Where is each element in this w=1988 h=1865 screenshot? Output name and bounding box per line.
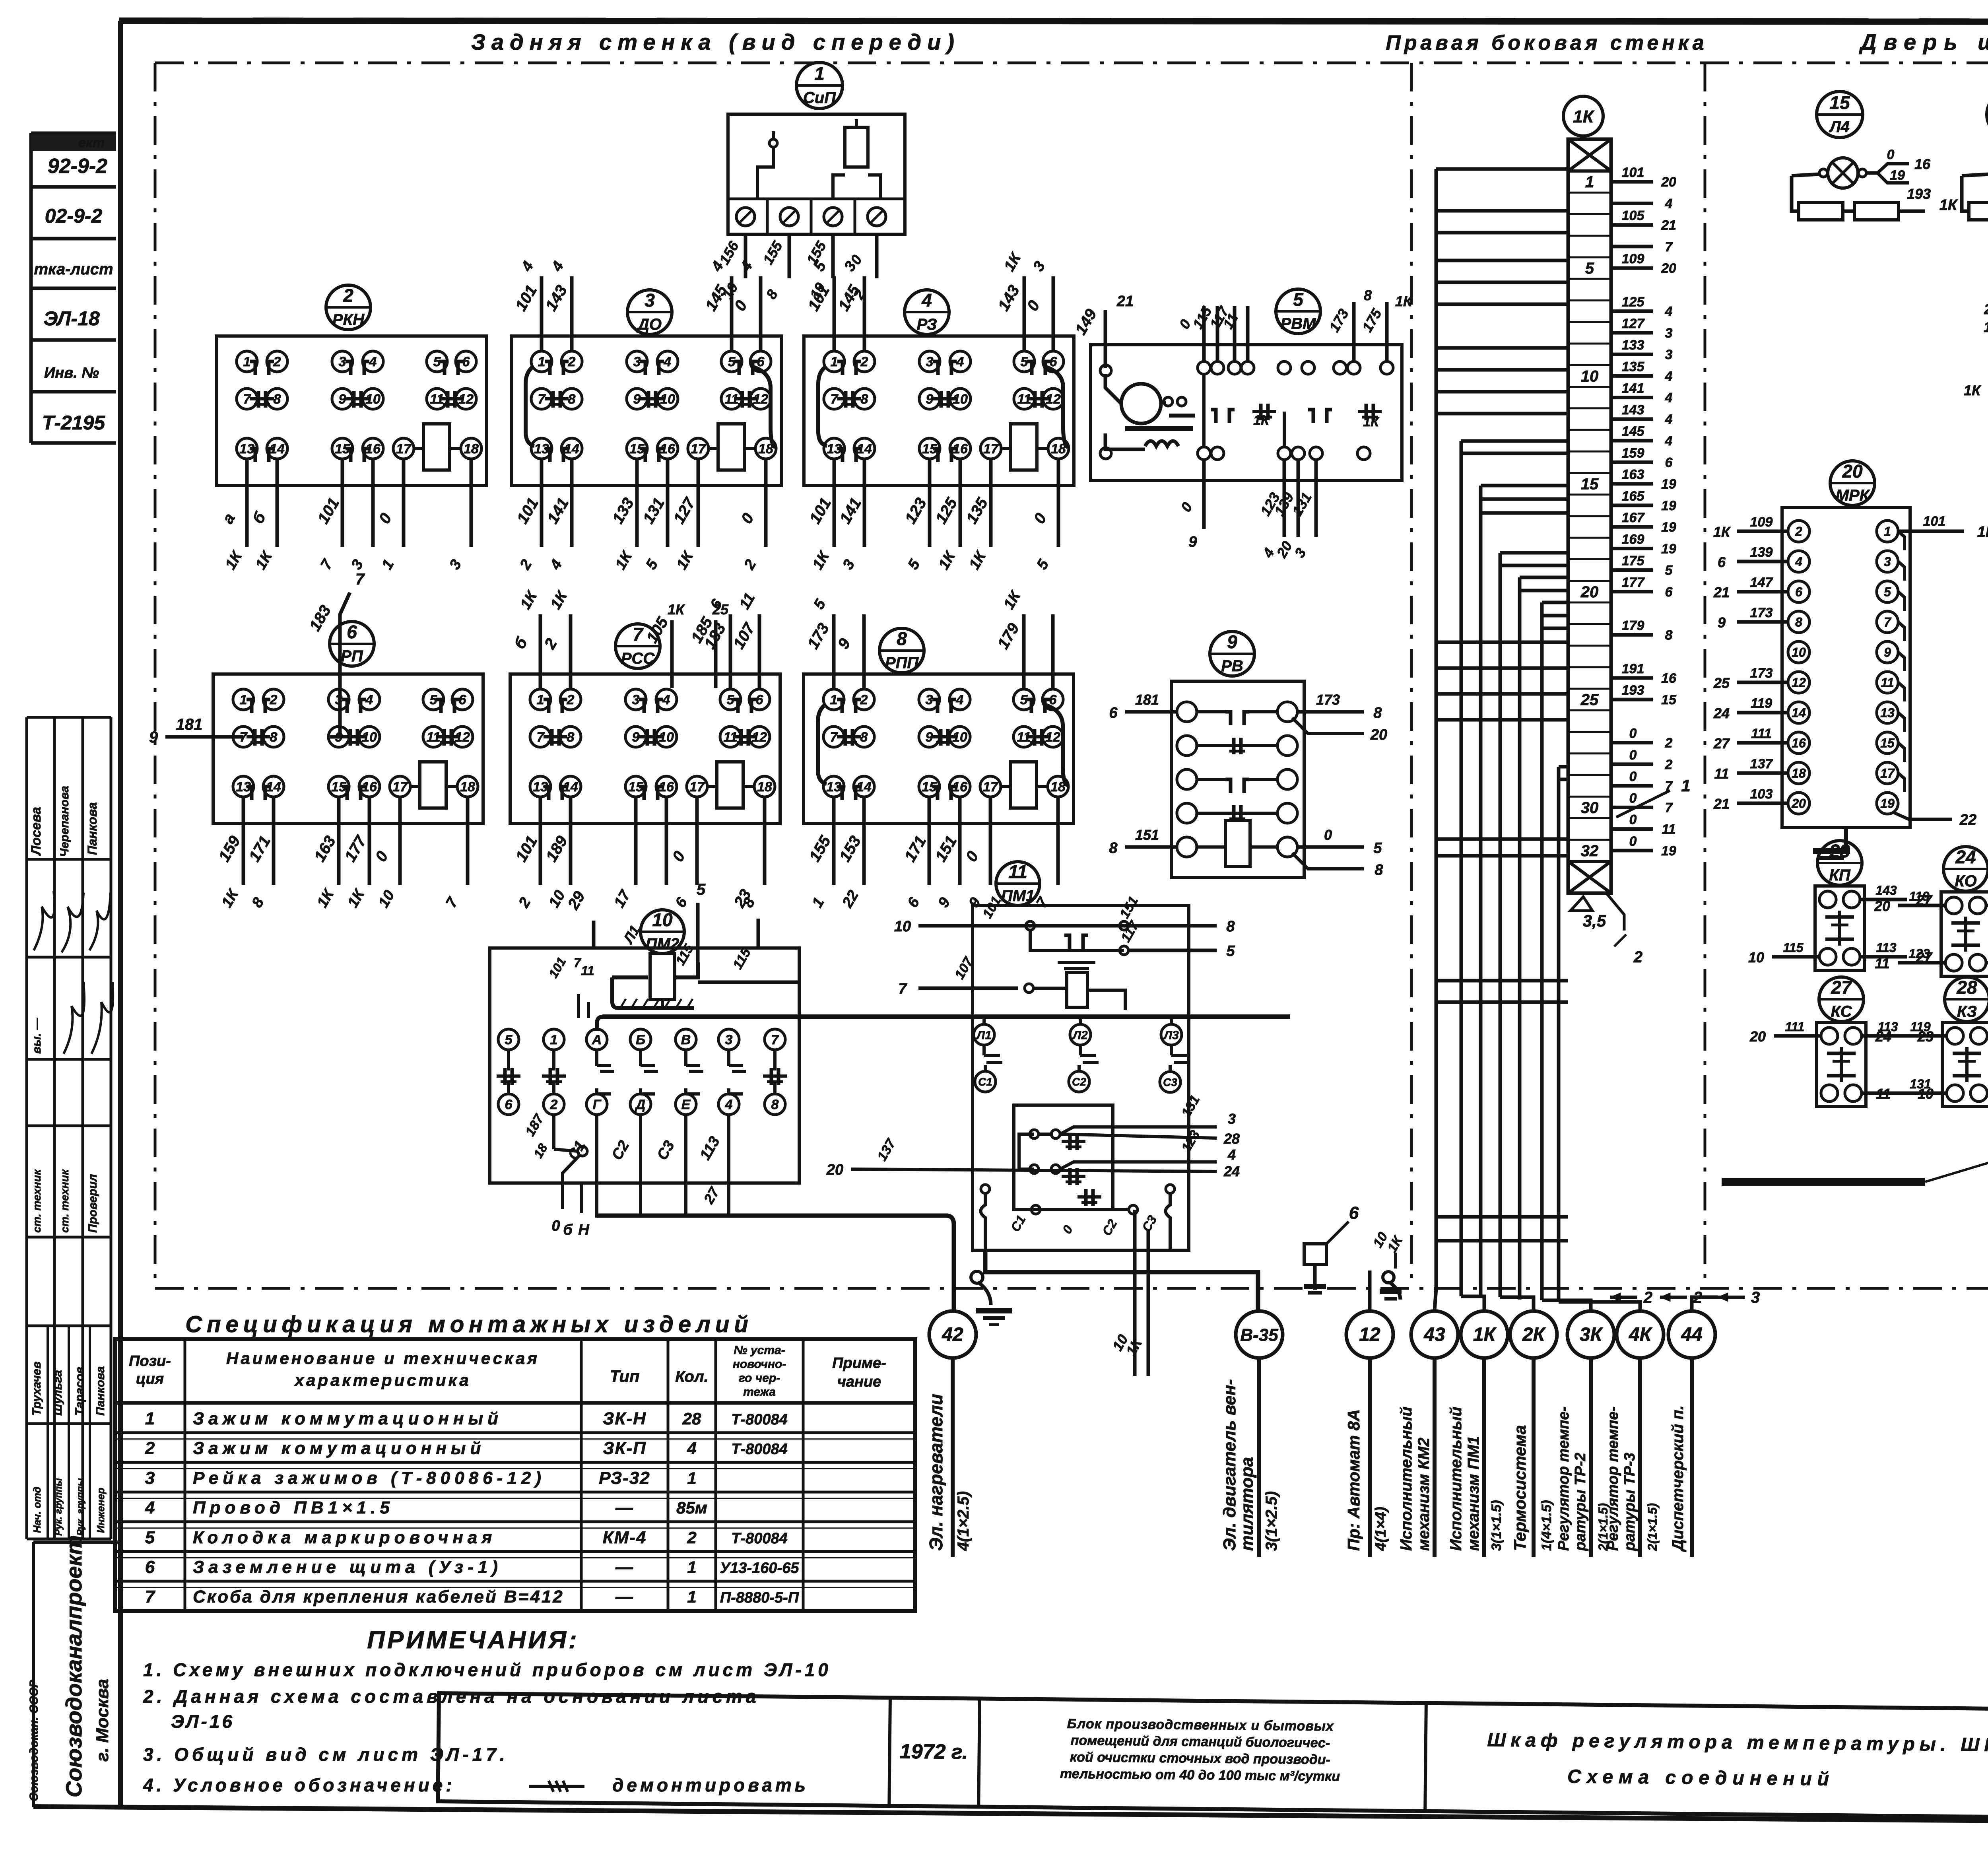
svg-text:3: 3: [1228, 1111, 1236, 1127]
svg-text:РП: РП: [341, 647, 363, 665]
svg-text:Пози-: Пози-: [129, 1353, 171, 1370]
svg-text:тилятора: тилятора: [1237, 1457, 1257, 1551]
svg-text:демонтировать: демонтировать: [612, 1775, 809, 1795]
svg-text:1: 1: [240, 692, 247, 707]
svg-text:Приме-: Приме-: [832, 1355, 886, 1372]
svg-text:0: 0: [1629, 812, 1637, 828]
svg-text:4(1×2.5): 4(1×2.5): [955, 1491, 972, 1551]
svg-text:Инженер: Инженер: [95, 1488, 107, 1533]
svg-text:ратуры ТР-3: ратуры ТР-3: [1621, 1453, 1638, 1551]
svg-text:Кол.: Кол.: [675, 1368, 709, 1385]
svg-text:177: 177: [1622, 575, 1645, 590]
svg-text:2: 2: [1665, 757, 1673, 772]
svg-text:15: 15: [1880, 736, 1895, 750]
svg-text:Термосистема: Термосистема: [1510, 1425, 1529, 1551]
svg-text:20: 20: [1791, 797, 1806, 811]
svg-text:РВМ: РВМ: [1281, 315, 1317, 332]
svg-text:111: 111: [1785, 1020, 1805, 1034]
svg-text:Т-80084: Т-80084: [731, 1441, 788, 1458]
svg-text:КЗ: КЗ: [1957, 1003, 1977, 1020]
svg-text:3: 3: [725, 1032, 733, 1047]
svg-text:Тарасов: Тарасов: [73, 1367, 86, 1416]
svg-text:7: 7: [145, 1587, 156, 1607]
svg-text:Эл. двигатель вен-: Эл. двигатель вен-: [1220, 1379, 1239, 1551]
svg-text:5: 5: [697, 881, 706, 898]
svg-text:179: 179: [1622, 618, 1644, 633]
svg-text:19: 19: [1880, 797, 1895, 811]
svg-text:8: 8: [270, 730, 278, 745]
svg-text:11: 11: [1876, 1086, 1891, 1102]
svg-text:Л3: Л3: [1163, 1029, 1179, 1042]
svg-text:4: 4: [662, 692, 670, 707]
svg-text:44: 44: [1681, 1324, 1702, 1345]
svg-text:8: 8: [1373, 705, 1382, 721]
svg-text:3: 3: [633, 354, 641, 369]
svg-text:165: 165: [1622, 489, 1645, 504]
svg-text:Панкова: Панкова: [85, 802, 99, 855]
svg-text:Регулятор темпе-: Регулятор темпе-: [1605, 1407, 1621, 1551]
svg-text:Диспетчерский п.: Диспетчерский п.: [1669, 1405, 1687, 1552]
svg-text:11: 11: [1714, 765, 1729, 782]
svg-text:РЗ-32: РЗ-32: [599, 1468, 650, 1488]
svg-text:2: 2: [687, 1528, 696, 1547]
svg-text:6: 6: [462, 354, 470, 369]
svg-text:Наименование и техническая: Наименование и техническая: [226, 1349, 540, 1368]
svg-text:92-9-2: 92-9-2: [48, 155, 107, 178]
svg-text:Исполнительный: Исполнительный: [1447, 1407, 1465, 1551]
svg-text:21: 21: [1713, 584, 1730, 600]
svg-text:У13-160-65: У13-160-65: [720, 1560, 800, 1577]
svg-text:7: 7: [1884, 615, 1892, 629]
svg-text:20: 20: [1370, 727, 1387, 743]
svg-text:Трухачев: Трухачев: [30, 1362, 43, 1416]
svg-text:24: 24: [1223, 1163, 1240, 1179]
svg-text:0: 0: [1629, 726, 1637, 741]
svg-text:Б: Б: [636, 1032, 645, 1047]
svg-text:23: 23: [1829, 841, 1850, 861]
svg-text:8: 8: [1364, 287, 1372, 303]
svg-text:12: 12: [1792, 676, 1806, 690]
svg-text:9: 9: [633, 392, 641, 407]
svg-text:2: 2: [1795, 525, 1802, 539]
svg-text:Л4: Л4: [1829, 118, 1850, 136]
svg-text:11: 11: [1008, 861, 1027, 882]
svg-text:139: 139: [1750, 545, 1773, 560]
svg-text:6: 6: [1349, 1203, 1359, 1223]
svg-text:123: 123: [1908, 946, 1930, 961]
svg-text:16: 16: [1792, 736, 1806, 750]
svg-text:17: 17: [983, 779, 999, 795]
svg-text:131: 131: [1910, 1077, 1931, 1091]
svg-text:18: 18: [460, 779, 475, 795]
svg-text:Задняя стенка (вид спере: Задняя стенка (вид спереди): [471, 29, 960, 54]
svg-text:3: 3: [339, 354, 346, 369]
svg-text:17: 17: [983, 441, 999, 457]
svg-text:10: 10: [894, 918, 911, 935]
svg-text:КС: КС: [1831, 1003, 1852, 1020]
svg-text:ПМ2: ПМ2: [646, 935, 679, 953]
svg-text:17: 17: [392, 779, 408, 795]
svg-text:2: 2: [270, 692, 278, 707]
svg-text:5: 5: [1293, 289, 1304, 310]
svg-text:КМ-4: КМ-4: [603, 1528, 647, 1547]
svg-text:ДО: ДО: [637, 316, 662, 333]
svg-text:109: 109: [1622, 251, 1644, 266]
svg-text:ЭЛ-18: ЭЛ-18: [43, 307, 100, 330]
svg-text:ст. техник: ст. техник: [31, 1169, 43, 1233]
svg-text:5: 5: [1884, 585, 1891, 599]
svg-text:193: 193: [1622, 683, 1644, 698]
svg-text:Нач. отд: Нач. отд: [31, 1486, 43, 1533]
svg-text:1К: 1К: [668, 601, 685, 618]
svg-text:3: 3: [645, 290, 655, 311]
svg-text:173: 173: [1316, 692, 1340, 708]
svg-text:167: 167: [1622, 510, 1645, 525]
svg-text:1(4×1.5): 1(4×1.5): [1539, 1500, 1554, 1551]
svg-text:4: 4: [369, 354, 377, 369]
svg-text:Т-80084: Т-80084: [731, 1530, 788, 1547]
svg-text:6: 6: [756, 692, 764, 707]
svg-text:4: 4: [1795, 555, 1802, 569]
svg-text:Колодка маркировочная: Колодка маркировочная: [193, 1528, 496, 1547]
svg-text:4: 4: [365, 692, 373, 707]
svg-text:22: 22: [1959, 812, 1976, 828]
svg-text:механизм ПМ1: механизм ПМ1: [1465, 1436, 1482, 1551]
svg-text:1: 1: [830, 692, 838, 707]
svg-text:РПП: РПП: [885, 654, 919, 672]
svg-text:Пр: Автомат 8А: Пр: Автомат 8А: [1344, 1409, 1363, 1551]
svg-text:2: 2: [145, 1439, 155, 1458]
svg-text:30: 30: [1581, 799, 1599, 816]
svg-text:2: 2: [550, 1097, 558, 1112]
svg-text:9: 9: [1188, 534, 1197, 550]
svg-text:4(1×4): 4(1×4): [1373, 1507, 1389, 1551]
svg-text:тежа: тежа: [743, 1385, 776, 1399]
svg-text:8: 8: [567, 730, 575, 745]
svg-text:Рейка зажимов (Т-80086-12): Рейка зажимов (Т-80086-12): [193, 1468, 546, 1488]
svg-text:7: 7: [1665, 779, 1673, 794]
svg-text:0: 0: [551, 1218, 560, 1234]
svg-text:4: 4: [664, 354, 672, 369]
svg-text:101: 101: [1622, 165, 1644, 180]
svg-text:МРК: МРК: [1836, 487, 1870, 504]
svg-text:Е: Е: [681, 1097, 691, 1112]
svg-text:—: —: [615, 1558, 634, 1577]
svg-text:Спецификация монтажных изд: Спецификация монтажных изделий: [185, 1311, 753, 1337]
svg-text:4: 4: [956, 692, 964, 707]
svg-text:32: 32: [1581, 842, 1599, 860]
svg-text:0: 0: [1629, 834, 1637, 849]
svg-text:16: 16: [1914, 156, 1931, 172]
svg-text:119: 119: [1751, 696, 1772, 711]
svg-text:4: 4: [1665, 390, 1673, 406]
svg-text:новочно-: новочно-: [733, 1358, 786, 1371]
svg-text:1К: 1К: [1939, 197, 1958, 214]
svg-text:103: 103: [1750, 787, 1773, 802]
svg-text:6: 6: [505, 1097, 513, 1112]
svg-text:Шульга: Шульга: [51, 1370, 64, 1416]
svg-text:20: 20: [1749, 1028, 1766, 1045]
svg-text:15: 15: [1581, 476, 1599, 493]
svg-text:Зажим коммутационный: Зажим коммутационный: [193, 1409, 503, 1428]
svg-text:Лосева: Лосева: [29, 807, 44, 856]
svg-text:25: 25: [712, 601, 729, 618]
svg-text:Эл. нагреватели: Эл. нагреватели: [926, 1394, 946, 1551]
svg-text:3К: 3К: [1580, 1324, 1604, 1345]
svg-text:135: 135: [1622, 359, 1645, 374]
svg-text:0: 0: [1629, 748, 1637, 763]
svg-text:19: 19: [1661, 520, 1676, 535]
svg-text:0: 0: [1887, 147, 1895, 162]
svg-text:8: 8: [1665, 627, 1673, 643]
svg-text:ЗК-П: ЗК-П: [603, 1439, 646, 1458]
svg-text:Рук. группы: Рук. группы: [53, 1478, 64, 1536]
svg-text:тка-лист: тка-лист: [34, 260, 113, 278]
svg-text:1: 1: [831, 354, 838, 369]
svg-text:119: 119: [1909, 889, 1929, 903]
svg-text:С3: С3: [1163, 1076, 1177, 1088]
svg-text:Черепанова: Черепанова: [58, 786, 71, 857]
svg-text:ЗК-Н: ЗК-Н: [603, 1409, 646, 1428]
svg-text:17: 17: [691, 441, 707, 457]
svg-text:б: б: [563, 1222, 573, 1238]
svg-text:4: 4: [687, 1439, 696, 1458]
svg-text:1К: 1К: [1713, 524, 1731, 540]
svg-text:6: 6: [1718, 554, 1726, 570]
svg-text:5: 5: [1585, 260, 1594, 277]
svg-text:115: 115: [1783, 940, 1804, 955]
svg-text:6: 6: [459, 692, 467, 707]
svg-text:1К: 1К: [1473, 1324, 1497, 1345]
svg-text:141: 141: [1622, 381, 1644, 396]
svg-text:1К: 1К: [1253, 413, 1270, 428]
svg-text:125: 125: [1622, 295, 1645, 310]
svg-text:8: 8: [771, 1097, 779, 1112]
svg-text:Исполнительный: Исполнительный: [1398, 1407, 1415, 1551]
svg-text:6: 6: [145, 1558, 155, 1577]
svg-text:3: 3: [145, 1468, 155, 1488]
svg-text:1. Схему внешних подключений: 1. Схему внешних подключений приборов см…: [143, 1659, 831, 1680]
svg-text:Правая боковая стенка: Правая боковая стенка: [1386, 31, 1707, 54]
svg-text:9: 9: [339, 392, 346, 407]
svg-text:25: 25: [1713, 675, 1730, 691]
svg-text:105: 105: [1622, 208, 1645, 223]
svg-text:КП: КП: [1829, 866, 1851, 884]
svg-text:7: 7: [355, 571, 365, 588]
svg-text:механизм КМ2: механизм КМ2: [1415, 1438, 1433, 1551]
svg-text:27: 27: [1831, 977, 1852, 998]
svg-text:Провод ПВ1×1.5: Провод ПВ1×1.5: [193, 1498, 394, 1517]
svg-text:10: 10: [1792, 645, 1806, 660]
svg-text:4: 4: [725, 1097, 733, 1112]
svg-text:1К: 1К: [1573, 107, 1594, 126]
svg-text:тельностью от 40 до 100 тыс: тельностью от 40 до 100 тыс м³/сутки: [1060, 1766, 1340, 1784]
svg-text:2: 2: [1665, 736, 1673, 751]
svg-text:181: 181: [176, 716, 203, 733]
svg-text:143: 143: [1622, 402, 1644, 418]
svg-text:Союзводоканалпроект: Союзводоканалпроект: [61, 1535, 86, 1797]
svg-text:—: —: [615, 1498, 634, 1517]
svg-text:111: 111: [1751, 726, 1772, 741]
svg-text:20: 20: [1661, 261, 1676, 276]
svg-text:ект: ект: [78, 135, 105, 150]
svg-text:—: —: [615, 1587, 634, 1607]
svg-text:14: 14: [1792, 706, 1806, 720]
svg-text:10: 10: [652, 909, 673, 930]
svg-text:5: 5: [505, 1032, 513, 1047]
svg-text:РВ: РВ: [1221, 657, 1243, 675]
svg-text:1: 1: [145, 1409, 155, 1428]
svg-text:151: 151: [1135, 827, 1159, 843]
svg-text:8: 8: [1375, 862, 1383, 878]
svg-text:ратуры ТР-2: ратуры ТР-2: [1572, 1453, 1589, 1551]
svg-text:0: 0: [1629, 791, 1637, 806]
svg-text:Схема соединений: Схема соединений: [1567, 1766, 1835, 1790]
svg-text:11: 11: [1875, 955, 1889, 971]
svg-text:3: 3: [1665, 347, 1673, 362]
svg-text:5: 5: [145, 1528, 155, 1547]
svg-text:2: 2: [568, 354, 576, 369]
svg-text:3: 3: [1665, 326, 1673, 341]
svg-text:2: 2: [273, 354, 281, 369]
svg-text:2: 2: [1693, 1289, 1702, 1306]
svg-text:15: 15: [1829, 92, 1850, 113]
svg-text:5: 5: [1226, 943, 1235, 960]
svg-text:6: 6: [1665, 455, 1673, 470]
svg-text:С2: С2: [1072, 1076, 1086, 1088]
svg-text:3(1×1.5): 3(1×1.5): [1489, 1500, 1504, 1551]
svg-text:85м: 85м: [676, 1498, 707, 1517]
svg-text:1: 1: [687, 1558, 696, 1577]
svg-text:Союзводокан. СССР: Союзводокан. СССР: [27, 1679, 41, 1801]
svg-text:4: 4: [1665, 304, 1673, 319]
svg-text:163: 163: [1622, 467, 1644, 482]
svg-text:28: 28: [682, 1409, 701, 1428]
svg-text:4: 4: [1665, 369, 1673, 384]
svg-text:24: 24: [1955, 847, 1976, 867]
svg-text:характеристика: характеристика: [294, 1371, 471, 1389]
svg-text:1К: 1К: [1964, 382, 1982, 398]
svg-text:1: 1: [550, 1032, 558, 1047]
svg-text:1: 1: [814, 63, 825, 84]
svg-text:20: 20: [826, 1162, 843, 1178]
svg-text:Инв. №: Инв. №: [44, 365, 99, 381]
svg-text:1: 1: [1681, 776, 1690, 795]
svg-text:12: 12: [1359, 1324, 1380, 1345]
svg-text:143: 143: [1875, 883, 1897, 898]
svg-text:6: 6: [347, 622, 357, 642]
svg-text:6: 6: [1109, 705, 1118, 721]
svg-text:Проверил: Проверил: [86, 1174, 99, 1233]
svg-text:г. Москва: г. Москва: [93, 1679, 112, 1762]
svg-text:8: 8: [897, 628, 907, 649]
svg-text:Регулятор темпе-: Регулятор темпе-: [1555, 1407, 1572, 1551]
svg-text:1: 1: [1585, 173, 1594, 191]
svg-text:147: 147: [1750, 575, 1774, 590]
svg-text:26: 26: [1984, 301, 1988, 317]
svg-text:2: 2: [860, 354, 868, 369]
svg-text:ция: ция: [136, 1371, 164, 1387]
svg-text:7: 7: [771, 1032, 780, 1047]
svg-text:3(1×2.5): 3(1×2.5): [1263, 1491, 1280, 1551]
svg-text:11: 11: [581, 964, 594, 978]
svg-text:18: 18: [757, 779, 772, 795]
svg-text:0: 0: [1324, 827, 1332, 843]
svg-text:П-8880-5-П: П-8880-5-П: [720, 1589, 799, 1606]
svg-text:СиП: СиП: [803, 89, 836, 107]
svg-text:2: 2: [343, 285, 353, 306]
svg-text:18: 18: [1792, 766, 1806, 781]
svg-text:17: 17: [1880, 766, 1895, 781]
svg-text:2К: 2К: [1522, 1324, 1546, 1345]
svg-text:4. Условное обозначение:: 4. Условное обозначение:: [143, 1775, 455, 1795]
svg-text:8: 8: [568, 392, 576, 407]
svg-text:10: 10: [1581, 367, 1599, 385]
svg-text:127: 127: [1622, 316, 1645, 331]
svg-text:7: 7: [574, 956, 582, 970]
svg-text:3,5: 3,5: [1583, 911, 1606, 930]
svg-text:10: 10: [1748, 949, 1764, 966]
svg-text:43: 43: [1423, 1324, 1445, 1345]
svg-text:13: 13: [1880, 706, 1895, 720]
svg-text:0: 0: [1629, 769, 1637, 784]
svg-text:6: 6: [1795, 585, 1802, 599]
svg-text:1К: 1К: [1977, 524, 1988, 540]
svg-text:С1: С1: [978, 1076, 992, 1088]
svg-text:18: 18: [464, 441, 479, 457]
svg-text:16: 16: [1661, 671, 1677, 686]
svg-text:Рук. группы: Рук. группы: [75, 1478, 86, 1536]
svg-text:помещений для станций биоло: помещений для станций биологичес-: [1070, 1733, 1330, 1750]
svg-text:173: 173: [1750, 605, 1773, 620]
svg-text:2: 2: [567, 692, 575, 707]
svg-text:Л1: Л1: [976, 1029, 991, 1042]
svg-text:8: 8: [274, 392, 281, 407]
svg-text:28: 28: [1223, 1131, 1240, 1147]
svg-text:Тип: Тип: [610, 1367, 639, 1385]
svg-text:159: 159: [1622, 445, 1644, 460]
svg-text:2: 2: [860, 692, 868, 707]
svg-text:РСС: РСС: [621, 650, 655, 667]
svg-text:19: 19: [1661, 477, 1676, 492]
svg-text:9: 9: [149, 729, 158, 746]
svg-text:1972 г.: 1972 г.: [900, 1740, 968, 1764]
svg-text:21: 21: [1116, 293, 1134, 310]
svg-text:4: 4: [1665, 433, 1673, 449]
svg-text:9: 9: [926, 392, 934, 407]
svg-text:7: 7: [898, 981, 907, 997]
svg-text:7: 7: [633, 624, 644, 645]
svg-text:2: 2: [1633, 948, 1642, 966]
svg-text:Панкова: Панкова: [94, 1366, 107, 1416]
svg-text:17: 17: [396, 441, 412, 457]
svg-text:02-9-2: 02-9-2: [45, 205, 103, 227]
svg-text:109: 109: [1750, 515, 1773, 530]
svg-text:11: 11: [1662, 822, 1675, 837]
svg-text:В-35: В-35: [1240, 1325, 1278, 1345]
svg-text:113: 113: [1876, 940, 1896, 955]
svg-text:1: 1: [1884, 525, 1891, 539]
svg-text:кой очистки сточных вод пр: кой очистки сточных вод производи-: [1070, 1750, 1330, 1768]
svg-text:24: 24: [1713, 705, 1730, 721]
svg-text:1: 1: [538, 354, 546, 369]
svg-text:20: 20: [1874, 898, 1890, 914]
svg-text:Д: Д: [635, 1097, 646, 1112]
svg-text:3: 3: [926, 354, 934, 369]
svg-text:8: 8: [861, 392, 868, 407]
svg-text:Заземление щита (Уз-1): Заземление щита (Уз-1): [193, 1558, 502, 1577]
svg-text:20: 20: [1842, 461, 1863, 482]
